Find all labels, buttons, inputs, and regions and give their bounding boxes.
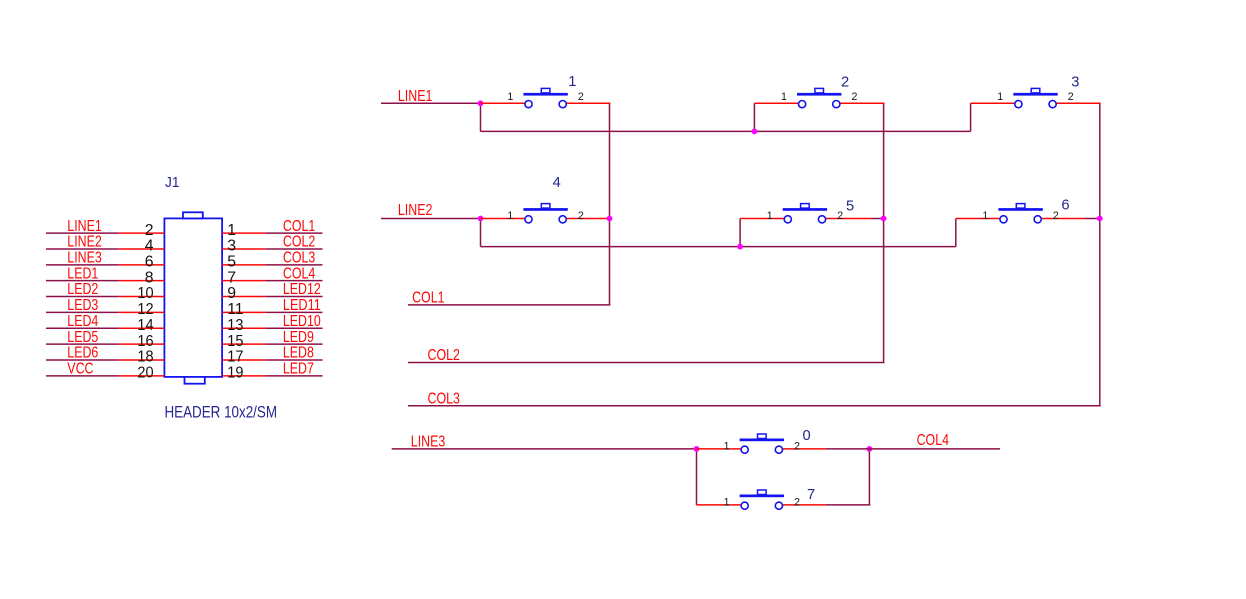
- svg-text:LINE1: LINE1: [398, 88, 433, 105]
- svg-text:18: 18: [137, 349, 153, 366]
- svg-text:2: 2: [1053, 210, 1059, 222]
- svg-text:6: 6: [145, 254, 154, 271]
- J1 pin 7: [222, 280, 266, 282]
- J1 pin 14: [119, 327, 165, 329]
- wire riser to S6 pin 1: [955, 219, 957, 247]
- wire LINE1 branch horizontal: [481, 130, 971, 132]
- wire S8 pin 1 lead: [697, 504, 745, 506]
- J1 pin 15: [222, 343, 266, 345]
- wire COL2 horizontal: [408, 362, 885, 364]
- svg-text:HEADER 10x2/SM: HEADER 10x2/SM: [165, 404, 278, 422]
- wire S4 pin 2 lead: [563, 218, 610, 220]
- S7 pin numbers: [724, 440, 801, 452]
- svg-text:3: 3: [227, 238, 236, 255]
- wire LINE2 branch horizontal: [481, 246, 956, 248]
- junction node LINE3 left: [694, 446, 700, 452]
- wire S1 pin 2 lead: [563, 102, 611, 104]
- svg-text:1: 1: [724, 440, 730, 452]
- wire S5 pin 2 lead: [822, 218, 871, 220]
- wire net COL2 (right of J1): [266, 248, 323, 250]
- svg-text:5: 5: [227, 254, 236, 271]
- wire S8 pin 2 to right riser: [826, 504, 870, 506]
- wire net LED1 (left of J1): [46, 280, 119, 282]
- J1 pin 1: [222, 232, 266, 234]
- wire net LINE2 (left of J1): [46, 248, 119, 250]
- svg-text:1: 1: [227, 222, 236, 239]
- svg-text:LED7: LED7: [283, 361, 314, 378]
- J1 pin 19: [222, 375, 266, 377]
- wire S7 pin 2 lead: [779, 448, 826, 450]
- pushbutton S5: [783, 204, 827, 223]
- junction node COL3 / S6 pin 2: [1097, 216, 1103, 222]
- wire S6 pin 2 lead: [1038, 218, 1085, 220]
- J1 pin 10: [119, 296, 165, 298]
- svg-text:1: 1: [781, 91, 787, 103]
- wire riser to S3 pin 1: [970, 103, 972, 131]
- junction node LINE1 branch / S2 riser: [752, 129, 758, 135]
- wire net LED7 (right of J1): [266, 375, 323, 377]
- wire COL4 horizontal: [869, 448, 1000, 450]
- S6 pin numbers: [982, 210, 1059, 222]
- pushbutton S8: [740, 490, 784, 509]
- wire net LED12 (right of J1): [266, 296, 323, 298]
- pushbutton S2: [797, 88, 841, 107]
- J1 pin 13: [222, 327, 266, 329]
- wire S8 pin 2 lead: [779, 504, 826, 506]
- svg-text:LED5: LED5: [67, 329, 98, 346]
- svg-text:LINE2: LINE2: [398, 202, 433, 219]
- wire LINE3 horizontal: [392, 448, 697, 450]
- svg-text:15: 15: [227, 333, 243, 350]
- svg-text:8: 8: [145, 269, 154, 286]
- wire net LED5 (left of J1): [46, 343, 119, 345]
- svg-text:LED12: LED12: [283, 281, 321, 298]
- pushbutton S6: [998, 204, 1042, 223]
- svg-text:1: 1: [767, 210, 773, 222]
- svg-text:4: 4: [145, 238, 154, 255]
- svg-text:19: 19: [227, 365, 243, 382]
- J1 pin 16: [119, 343, 165, 345]
- wire S1 pin 1 lead: [481, 102, 529, 104]
- svg-text:LED4: LED4: [67, 313, 98, 330]
- wire LINE2 horizontal: [381, 218, 481, 220]
- svg-text:1: 1: [507, 210, 513, 222]
- svg-text:LED9: LED9: [283, 329, 314, 346]
- svg-text:9: 9: [227, 285, 236, 302]
- wire net COL1 (right of J1): [266, 232, 323, 234]
- svg-text:2: 2: [794, 496, 800, 508]
- J1 pin 12: [119, 311, 165, 313]
- S3 pin numbers: [997, 91, 1074, 103]
- wire net LED9 (right of J1): [266, 343, 323, 345]
- svg-text:10: 10: [137, 285, 153, 302]
- J1 pin 4: [119, 248, 165, 250]
- wire S5 pin 1 lead: [740, 218, 788, 220]
- svg-text:20: 20: [137, 365, 153, 382]
- wire net LED11 (right of J1): [266, 311, 323, 313]
- J1 pin 8: [119, 280, 165, 282]
- svg-text:COL2: COL2: [283, 234, 315, 251]
- S4 pin numbers: [507, 210, 584, 222]
- svg-text:LED11: LED11: [283, 297, 321, 314]
- svg-text:LINE3: LINE3: [67, 250, 102, 267]
- svg-text:14: 14: [137, 317, 153, 334]
- wire riser to S5 pin 1: [739, 219, 741, 247]
- svg-text:2: 2: [578, 210, 584, 222]
- wire net VCC (left of J1): [46, 375, 119, 377]
- wire right riser S7/S8: [868, 449, 870, 505]
- J1 pin 2: [119, 232, 165, 234]
- svg-text:17: 17: [227, 349, 243, 366]
- J1 pin 11: [222, 311, 266, 313]
- wire net LINE3 (left of J1): [46, 264, 119, 266]
- svg-text:COL3: COL3: [428, 390, 461, 407]
- svg-text:COL3: COL3: [283, 250, 316, 267]
- svg-text:LINE2: LINE2: [67, 234, 102, 251]
- svg-text:2: 2: [841, 75, 849, 91]
- wire S6 pin 1 lead: [956, 218, 1004, 220]
- wire S4 pin 1 lead: [481, 218, 529, 220]
- svg-text:LED1: LED1: [67, 265, 98, 282]
- svg-text:LED8: LED8: [283, 345, 314, 362]
- wire COL2 vertical: [883, 103, 885, 362]
- svg-text:J1: J1: [165, 174, 180, 191]
- svg-text:7: 7: [227, 269, 236, 286]
- svg-text:COL1: COL1: [412, 290, 444, 307]
- junction node COL2 / S5 pin 2: [881, 216, 887, 222]
- wire net COL3 (right of J1): [266, 264, 323, 266]
- junction node LINE2 branch / S5 riser: [737, 244, 743, 250]
- pushbutton S4: [523, 204, 567, 223]
- svg-text:LINE1: LINE1: [67, 218, 102, 235]
- wire net LED2 (left of J1): [46, 296, 119, 298]
- pushbutton S1: [523, 88, 567, 107]
- pushbutton S7: [740, 434, 784, 453]
- junction node LINE2: [478, 216, 484, 222]
- junction node LINE1: [478, 100, 484, 106]
- svg-text:COL4: COL4: [283, 265, 316, 282]
- S1 pin numbers: [507, 91, 584, 103]
- svg-text:3: 3: [1071, 75, 1079, 91]
- svg-text:LED6: LED6: [67, 345, 98, 362]
- junction node COL1 / S4 pin 2: [607, 216, 613, 222]
- wire LINE1 branch drop: [480, 102, 482, 131]
- svg-text:11: 11: [227, 301, 243, 318]
- svg-text:5: 5: [846, 199, 854, 215]
- wire S2 pin 2 lead: [836, 102, 884, 104]
- wire COL1 vertical: [609, 103, 611, 305]
- wire LINE1 horizontal: [381, 102, 481, 104]
- svg-text:0: 0: [803, 428, 811, 444]
- svg-text:LINE3: LINE3: [411, 433, 446, 450]
- svg-text:12: 12: [137, 301, 153, 318]
- wire S6 pin 2 to COL3: [1085, 218, 1100, 220]
- svg-text:2: 2: [145, 222, 154, 239]
- J1 pin 6: [119, 264, 165, 266]
- svg-text:LED10: LED10: [283, 313, 321, 330]
- wire net LED3 (left of J1): [46, 311, 119, 313]
- svg-text:1: 1: [507, 91, 513, 103]
- svg-text:6: 6: [1061, 198, 1069, 214]
- svg-text:LED3: LED3: [67, 297, 98, 314]
- J1 pin 5: [222, 264, 266, 266]
- J1 pin 20: [119, 375, 165, 377]
- svg-text:COL2: COL2: [428, 347, 460, 364]
- svg-text:2: 2: [578, 91, 584, 103]
- svg-text:LED2: LED2: [67, 281, 98, 298]
- wire net LED8 (right of J1): [266, 359, 323, 361]
- svg-text:COL1: COL1: [283, 218, 315, 235]
- wire net COL4 (right of J1): [266, 280, 323, 282]
- svg-text:VCC: VCC: [67, 361, 93, 378]
- wire S5 pin 2 to COL2: [871, 218, 884, 220]
- svg-text:4: 4: [553, 175, 561, 191]
- wire riser to S2 pin 1: [753, 103, 755, 131]
- J1 pin 9: [222, 296, 266, 298]
- wire net LED10 (right of J1): [266, 327, 323, 329]
- J1 pin 17: [222, 359, 266, 361]
- pushbutton S3: [1013, 88, 1057, 107]
- svg-text:2: 2: [1068, 91, 1074, 103]
- wire net LED4 (left of J1): [46, 327, 119, 329]
- svg-text:1: 1: [724, 496, 730, 508]
- junction node LINE3 right: [867, 446, 873, 452]
- J1 pin 18: [119, 359, 165, 361]
- svg-text:13: 13: [227, 317, 243, 334]
- S5 pin numbers: [767, 210, 844, 222]
- wire S2 pin 1 lead: [754, 102, 802, 104]
- svg-text:1: 1: [982, 210, 988, 222]
- wire COL3 vertical: [1099, 103, 1101, 406]
- wire S7 pin 2 to COL4: [826, 448, 870, 450]
- S8 pin numbers: [724, 496, 801, 508]
- J1 pin 3: [222, 248, 266, 250]
- wire LINE2 branch drop: [480, 218, 482, 247]
- wire COL1 horizontal: [408, 304, 610, 306]
- svg-text:2: 2: [794, 440, 800, 452]
- svg-text:16: 16: [137, 333, 153, 350]
- svg-text:7: 7: [807, 487, 815, 503]
- svg-text:COL4: COL4: [917, 432, 950, 449]
- svg-text:2: 2: [837, 210, 843, 222]
- wire S3 pin 1 lead: [971, 102, 1019, 104]
- connector J1 body: [164, 212, 222, 383]
- wire net LINE1 (left of J1): [46, 232, 119, 234]
- svg-text:1: 1: [568, 74, 576, 90]
- svg-text:2: 2: [852, 91, 858, 103]
- wire COL3 horizontal: [408, 405, 1101, 407]
- wire left riser S7/S8: [696, 449, 698, 505]
- wire net LED6 (left of J1): [46, 359, 119, 361]
- S2 pin numbers: [781, 91, 858, 103]
- wire S7 pin 1 lead: [697, 448, 745, 450]
- wire S3 pin 2 lead: [1053, 102, 1101, 104]
- svg-text:1: 1: [997, 91, 1003, 103]
